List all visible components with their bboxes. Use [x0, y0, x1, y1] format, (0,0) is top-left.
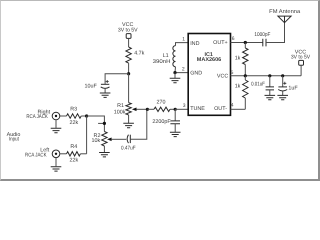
- svg-text:Input: Input: [9, 136, 19, 142]
- wire: right VCC terminal down to rail: [300, 65, 302, 76]
- capacitor 2200pF: [170, 121, 180, 124]
- wire: R1 wiper to node C: [137, 108, 148, 110]
- wire down to 1uF: [282, 76, 284, 87]
- wire: VCC terminal to R5: [128, 38, 130, 47]
- ground below 2200pF: [174, 124, 176, 132]
- node D junction: [174, 108, 177, 111]
- resistor 270: [154, 107, 170, 111]
- svg-text:4: 4: [231, 103, 234, 109]
- svg-text:6: 6: [232, 36, 235, 42]
- node A junction (R3/R4 mix point): [85, 114, 88, 117]
- svg-text:3: 3: [183, 103, 186, 109]
- potentiometer R2: [102, 132, 112, 147]
- wire: 0.47uF up to tune node: [130, 109, 147, 139]
- svg-text:1000pF: 1000pF: [254, 32, 271, 38]
- svg-text:100k: 100k: [114, 109, 126, 115]
- inductor L1 390nH: [173, 46, 176, 67]
- ground at right RCA jack: [51, 128, 62, 132]
- ground below R1: [128, 115, 130, 123]
- svg-text:270: 270: [157, 100, 166, 106]
- VCC terminal (top): [126, 34, 131, 39]
- svg-text:10k: 10k: [92, 138, 101, 144]
- potentiometer R1: [126, 103, 137, 115]
- ground below 0.01uF: [269, 90, 271, 95]
- capacitor 1uF (electrolytic): [278, 82, 287, 95]
- node E junction: [173, 71, 176, 74]
- wire: R4 to node A column: [80, 153, 86, 155]
- svg-text:RCA JACK: RCA JACK: [25, 153, 47, 159]
- resistor R3: [67, 114, 82, 118]
- svg-text:GND: GND: [190, 70, 202, 76]
- svg-text:10uF: 10uF: [85, 83, 98, 89]
- wire: node A right then down to R2 top: [87, 116, 105, 132]
- svg-text:R3: R3: [70, 106, 77, 112]
- wire: node A down to R4: [86, 116, 88, 154]
- svg-text:R1: R1: [117, 103, 124, 109]
- svg-text:1k: 1k: [235, 55, 241, 61]
- RCA jack J1 (Right): [52, 112, 60, 128]
- wire: node D down to 2200pF: [174, 109, 176, 120]
- wire: OUT- pin4: [231, 108, 246, 110]
- wire: R3 to node A: [81, 115, 86, 117]
- wire: pin1 IND to L1: [176, 43, 189, 46]
- ground below R2: [103, 146, 105, 152]
- svg-text:22k: 22k: [70, 157, 79, 163]
- ground below 10uF: [100, 93, 111, 97]
- op IC1 MAX2606 box: [188, 34, 230, 116]
- wire: pin6 OUT+ to 1000pF: [231, 42, 263, 44]
- wire: L1 to node E / pin2 GND: [175, 67, 188, 73]
- svg-text:OUT-: OUT-: [214, 106, 227, 112]
- wire: node C to 270: [147, 108, 154, 110]
- node H junction (0.01uF): [268, 74, 271, 77]
- svg-text:390nH: 390nH: [153, 59, 171, 65]
- svg-text:3V to 5V: 3V to 5V: [291, 54, 311, 60]
- wire: 4.7k to node B: [128, 63, 130, 74]
- wire: 270 to node D: [170, 108, 175, 110]
- wire: node B to 10uF: [105, 74, 129, 84]
- node F junction (OUT+): [244, 41, 247, 44]
- capacitor 10uF (electrolytic): [101, 80, 110, 93]
- node G junction (VCC/1k chain): [244, 74, 247, 77]
- wire: left jack to R4: [60, 153, 67, 155]
- svg-text:VCC: VCC: [217, 73, 228, 79]
- svg-text:MAX2606: MAX2606: [197, 57, 222, 63]
- wire: node B down to R1: [128, 74, 130, 103]
- capacitor 0.47uF: [127, 135, 130, 143]
- node C junction (tune node): [146, 108, 149, 111]
- node B junction: [127, 72, 130, 75]
- svg-text:1: 1: [182, 37, 185, 43]
- svg-text:2200pF: 2200pF: [152, 119, 171, 125]
- svg-text:22k: 22k: [70, 120, 79, 126]
- svg-text:1k: 1k: [235, 83, 241, 89]
- label Audio Input: [7, 132, 21, 143]
- ground at left RCA jack: [51, 167, 62, 171]
- wire: node D to TUNE pin: [175, 108, 188, 110]
- svg-text:1uF: 1uF: [288, 85, 298, 91]
- resistor R4: [67, 152, 81, 156]
- svg-text:0.47uF: 0.47uF: [121, 146, 136, 152]
- wire: pin5 VCC rail: [231, 75, 302, 77]
- wire: 1000pF to antenna: [266, 23, 285, 43]
- svg-text:R4: R4: [70, 144, 77, 150]
- VCC terminal (right): [299, 60, 304, 65]
- svg-text:RCA JACK: RCA JACK: [26, 114, 48, 120]
- svg-text:TUNE: TUNE: [190, 106, 205, 112]
- svg-text:IND: IND: [190, 41, 199, 47]
- resistor 1k (lower): [243, 80, 248, 98]
- resistor 1k (upper): [243, 48, 248, 65]
- svg-text:0.01uF: 0.01uF: [251, 81, 265, 87]
- capacitor 1000pF: [263, 39, 266, 47]
- capacitor 0.01uF: [266, 87, 274, 90]
- svg-text:4.7k: 4.7k: [134, 51, 144, 57]
- wire down to 0.01uF: [269, 76, 271, 87]
- wire: R2 wiper to C 0.47uF: [112, 138, 127, 140]
- node I junction (1uF): [281, 74, 284, 77]
- svg-text:FM Antenna: FM Antenna: [269, 9, 300, 15]
- svg-text:2: 2: [182, 66, 185, 72]
- svg-text:3V to 5V: 3V to 5V: [118, 28, 138, 34]
- svg-text:5: 5: [231, 70, 234, 76]
- wire: right RCA jack to R3: [60, 115, 67, 117]
- ground at pin2/L1: [174, 73, 176, 78]
- ground below 1uF: [277, 95, 288, 99]
- svg-text:OUT+: OUT+: [213, 40, 228, 46]
- RCA jack J2 (Left): [52, 150, 60, 166]
- node R2 top junction with stub: [98, 122, 104, 124]
- resistor 4.7k: [126, 47, 131, 63]
- FM antenna symbol: [278, 16, 291, 23]
